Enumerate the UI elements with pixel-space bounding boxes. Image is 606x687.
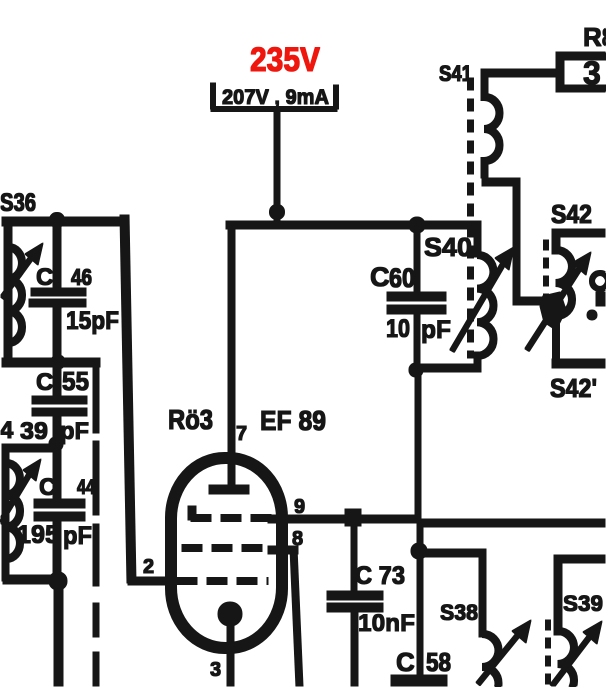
- wire long line tank1 to pin 2: [120, 215, 136, 583]
- svg-text:R8: R8: [583, 22, 606, 52]
- junction dot tank2 top: [49, 437, 63, 451]
- svg-text:55: 55: [62, 366, 89, 396]
- wire tank2 bottom: [3, 575, 59, 584]
- ink blob where S41 wire meets S42 coil: [540, 292, 566, 330]
- wire S41 top to resistor: [481, 69, 558, 77]
- capacitor C46: [31, 288, 86, 296]
- inductor S39: [558, 631, 574, 687]
- svg-text:EF 89: EF 89: [260, 405, 326, 436]
- svg-text:S36: S36: [0, 189, 36, 217]
- junction dot pin9 bus / C73: [345, 509, 361, 526]
- junction dot mid: [51, 355, 65, 369]
- svg-text:3: 3: [583, 55, 601, 91]
- clipped component fragments at right edge: [592, 273, 606, 289]
- wire C55 branch: [53, 367, 61, 398]
- svg-text:C 73: C 73: [355, 562, 405, 590]
- wire C46 branch lower: [53, 306, 61, 363]
- wire C73 upper: [351, 518, 357, 592]
- svg-text:44: 44: [77, 476, 95, 499]
- wire anode to tube pin 7: [228, 221, 235, 491]
- junction dot on supply drop: [270, 205, 285, 220]
- arrow of variable inductor S38: [478, 630, 522, 684]
- measurement bracket 207V 9mA: [211, 83, 337, 109]
- wire anode bus: [226, 221, 481, 229]
- capacitor C55: [32, 396, 87, 404]
- svg-text:195: 195: [17, 521, 59, 549]
- capacitor C44: [34, 499, 85, 508]
- inductor S40: [478, 255, 494, 356]
- svg-text:10nF: 10nF: [358, 610, 415, 637]
- cathode wire pin 3: [227, 622, 234, 687]
- wire C60 branch upper: [414, 227, 420, 295]
- wire right branch of C55 network: [93, 362, 99, 433]
- capacitor C60: [387, 292, 446, 301]
- wire C44 branch: [53, 448, 61, 500]
- svg-text:10: 10: [386, 315, 410, 343]
- resistor R8 (box, clipped at edge): [556, 52, 606, 92]
- svg-text:pF: pF: [60, 418, 89, 445]
- junction dot tank2 bottom: [49, 572, 67, 590]
- arrow of variable inductor S40: [452, 259, 506, 351]
- junction dot C60 / S40 bottom: [409, 363, 423, 377]
- svg-text:C: C: [370, 262, 390, 292]
- svg-text:pF: pF: [63, 522, 92, 550]
- svg-text:S39: S39: [563, 591, 603, 616]
- ganging dashed line S42: [544, 240, 549, 300]
- wire below C44: [53, 520, 61, 578]
- svg-text:S41: S41: [439, 61, 472, 86]
- wire tank output down to pin9 bus: [415, 370, 421, 520]
- svg-text:39: 39: [20, 418, 48, 445]
- pin 8 wire: [268, 546, 298, 554]
- svg-text:S42: S42: [551, 199, 592, 229]
- svg-text:8: 8: [292, 528, 303, 550]
- junction dot anode bus / C60 branch: [409, 217, 425, 233]
- svg-text:S38: S38: [440, 600, 478, 625]
- inductor of tank2: [6, 463, 20, 559]
- svg-text:2: 2: [143, 556, 154, 578]
- svg-text:4: 4: [0, 417, 14, 444]
- wire tank2 top: [2, 444, 56, 452]
- svg-text:C: C: [396, 647, 415, 677]
- svg-text:58: 58: [426, 647, 451, 677]
- svg-text:207V , 9mA: 207V , 9mA: [222, 86, 329, 109]
- wire down from tank2: [54, 586, 63, 687]
- svg-text:3: 3: [210, 659, 221, 681]
- svg-text:235V: 235V: [250, 41, 320, 79]
- svg-text:C: C: [36, 369, 53, 396]
- wire below C55: [53, 416, 61, 446]
- wire supply drop to anode bus: [274, 112, 280, 227]
- svg-text:46: 46: [71, 264, 92, 290]
- capacitor C73: [327, 591, 383, 600]
- grid g2 dashed row: [182, 545, 268, 552]
- wire junction to S38: [419, 549, 483, 557]
- arrow of variable inductor S36: [2, 254, 34, 298]
- junction dot to S38 branch: [411, 543, 427, 559]
- pin 9 wire: [268, 515, 421, 523]
- wire S39 box top: [554, 555, 606, 563]
- arrow of variable inductor S39: [552, 631, 594, 686]
- svg-text:Rö3: Rö3: [168, 404, 213, 435]
- capacitor C58 plate: [391, 675, 447, 687]
- svg-text:C: C: [36, 264, 53, 291]
- inductor S42: [556, 250, 572, 360]
- inductor S36: [8, 247, 22, 343]
- wire S42 box bottom: [552, 359, 606, 368]
- svg-text:pF: pF: [421, 316, 451, 344]
- svg-text:9: 9: [294, 496, 305, 518]
- pin 2 wire: [128, 577, 172, 585]
- wire S38 down: [479, 549, 486, 637]
- svg-text:60: 60: [389, 263, 415, 293]
- wire tank1 bottom bus: [2, 358, 100, 367]
- svg-text:15pF: 15pF: [66, 307, 119, 335]
- wire tank1 left: [4, 218, 12, 365]
- wire S42 box top: [552, 229, 606, 237]
- svg-text:7: 7: [236, 423, 247, 445]
- wire C60 branch lower: [414, 313, 420, 371]
- grid g1 dashed row: [177, 578, 268, 585]
- wire tank1 top: [2, 217, 127, 226]
- wire tank2 left: [2, 444, 9, 581]
- tube U R&#246;3 EF89 envelope: [171, 458, 282, 648]
- wire S40 top corner: [474, 221, 481, 257]
- wire down to S38 junction and C58: [417, 520, 423, 675]
- junction dot tank1 top: [50, 213, 65, 228]
- wire S40 bottom corner: [474, 352, 481, 372]
- svg-text:S42': S42': [550, 373, 597, 403]
- svg-text:S40: S40: [424, 232, 472, 262]
- inductor S41: [485, 72, 500, 178]
- wire S41 bottom run to S42: [482, 178, 520, 186]
- wire C73 lower: [351, 612, 358, 687]
- ganging dashed line S39: [546, 620, 551, 687]
- inductor S38: [483, 634, 499, 687]
- anode plate: [209, 485, 249, 494]
- wire C46 branch upper: [53, 222, 61, 290]
- grid g3 dashed row: [188, 506, 196, 520]
- arrow of variable inductor S42: [527, 263, 583, 350]
- ganging dashed line S41/S40: [468, 78, 474, 358]
- cathode dot: [218, 602, 242, 626]
- arrow of variable inductor tank2: [0, 470, 32, 523]
